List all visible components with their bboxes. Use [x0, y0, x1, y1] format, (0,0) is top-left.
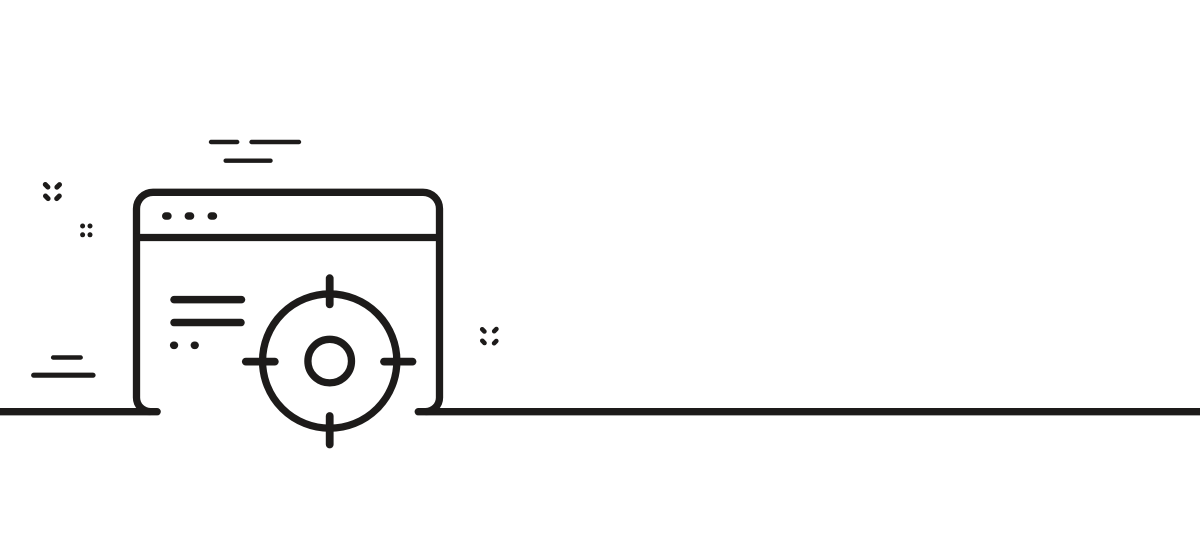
target outer circle [263, 294, 397, 428]
target tick bottom [326, 416, 334, 445]
target tick top [326, 278, 334, 304]
toolbar dot 3 [211, 212, 213, 219]
baseline right segment [418, 408, 1200, 415]
target tick left [246, 358, 275, 366]
content text line 2 [174, 319, 241, 327]
content text line 1 [174, 296, 242, 304]
speed dash top lower [226, 158, 271, 162]
toolbar dot 1 [166, 212, 168, 219]
sparkle dots quad [80, 224, 92, 238]
sparkle cross left [45, 185, 59, 199]
browser toolbar divider [134, 234, 443, 241]
baseline left segment [0, 408, 157, 415]
sparkle cross right [482, 329, 496, 343]
speed dash top short [211, 140, 237, 144]
content dot 1 [170, 341, 178, 349]
browser window outline [137, 192, 440, 411]
speed dash top long [252, 140, 300, 144]
content dot 2 [191, 341, 199, 349]
toolbar dot 2 [188, 212, 190, 219]
target tick right [384, 358, 413, 366]
speed dash bottom short [53, 355, 81, 359]
speed dash bottom long [34, 373, 93, 378]
target inner circle [308, 339, 352, 383]
